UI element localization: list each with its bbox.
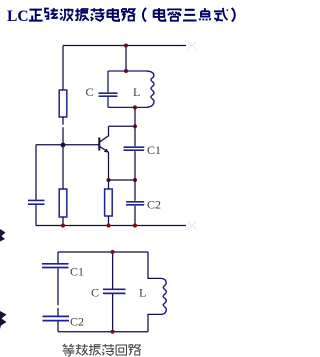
node: C2 top junction [133, 178, 137, 182]
caption char 等 [63, 344, 75, 356]
wire: emitter node to Re [108, 180, 110, 189]
svg-text:C: C [91, 286, 99, 300]
node: emitter junction [106, 178, 110, 182]
caption char 路 [129, 344, 141, 355]
wire: R2 to ground rail [62, 217, 64, 226]
wire: lower left branch upper [57, 252, 59, 263]
node: collector junction [133, 124, 137, 128]
svg-text:L: L [139, 286, 146, 300]
title char （ [143, 8, 146, 22]
wire: Vcc top rail [63, 45, 186, 47]
wire: lower bottom rail [58, 331, 148, 333]
svg-text:C1: C1 [147, 143, 161, 157]
title char 振 [75, 8, 89, 21]
node: middle top [111, 250, 115, 254]
title char 式 [214, 8, 228, 21]
node: rail tap [124, 44, 128, 48]
node: C2 ground junction [133, 223, 137, 227]
svg-text:C2: C2 [147, 198, 161, 212]
faint end mark at top rail [188, 42, 196, 49]
wire: tank bottom to collector node and down to ground [134, 107, 136, 225]
wire: emitter node to C2 node [109, 179, 136, 181]
title char 正 [29, 10, 43, 21]
wire: R1 to base node [62, 117, 64, 145]
title char 波 [60, 9, 73, 21]
faint end mark at bottom rail [188, 222, 196, 229]
wire: node to R2 [62, 145, 64, 189]
svg-text:L: L [133, 85, 140, 99]
node: tank bottom [133, 105, 137, 109]
title char 电 [154, 8, 166, 21]
transistor Q1 emitter arrow [104, 149, 109, 153]
tank left edge [107, 71, 109, 107]
caption char 回 [116, 345, 126, 355]
svg-text:C1: C1 [70, 265, 84, 279]
svg-text:LC: LC [7, 8, 29, 25]
capacitor C1 plates [124, 147, 145, 150]
inductor L (equiv) coil [162, 278, 167, 314]
wire: emitter down [108, 152, 110, 180]
wire: base horizontal [36, 144, 99, 146]
node: Re ground junction [106, 223, 110, 227]
title char ） [232, 8, 235, 22]
caption char 效 [76, 344, 88, 355]
node: middle bottom [111, 330, 115, 334]
transistor Q1 base bar [98, 138, 100, 151]
transistor Q1 emitter stroke [100, 147, 109, 153]
wire: middle branch upper [112, 252, 114, 289]
wire: lower top rail [58, 251, 148, 253]
tank top edge [108, 70, 147, 72]
wire: between C1 and C2 [57, 268, 59, 315]
node: tank top [124, 69, 128, 73]
node: base junction [61, 143, 66, 148]
left edge artifact mark upper [0, 229, 6, 242]
wire: bottom ground rail [36, 225, 186, 227]
tank bottom edge [108, 106, 147, 108]
capacitor C (tank) plates [99, 93, 118, 96]
caption char 荡 [102, 344, 114, 355]
capacitor C2 (equiv) plates [43, 316, 70, 320]
resistor R1 (base bias) [59, 90, 67, 117]
title text LC [7, 8, 29, 25]
inductor L (tank) coil [147, 71, 155, 107]
title char 三 [183, 10, 196, 21]
capacitor (base bypass) plates [28, 200, 45, 204]
transistor Q1 collector stroke [100, 126, 109, 142]
wire: left branch down to bypass cap [35, 145, 37, 200]
wire: middle branch lower [112, 294, 114, 332]
title char 路 [122, 8, 135, 20]
wire: left vertical from rail to R1 [62, 46, 64, 91]
resistor R2 (lower bias) [59, 189, 67, 217]
capacitor C (equiv) plates [103, 289, 126, 293]
wire: lower right branch with stubs [148, 252, 162, 332]
wire: Re to ground rail [108, 216, 110, 226]
svg-text:C: C [86, 85, 94, 99]
node: R2 ground junction [61, 223, 65, 227]
wire: collector to C1 node [109, 125, 136, 127]
svg-text:C2: C2 [70, 315, 84, 329]
caption char 振 [89, 344, 101, 355]
title char 弦 [45, 8, 58, 19]
capacitor C2 plates [126, 202, 144, 205]
wire: C2 to lower bottom rail [57, 321, 59, 331]
title char 电 [108, 8, 120, 21]
left edge artifact mark lower [0, 311, 7, 329]
title char 点 [199, 8, 210, 20]
wire: bypass cap to ground rail [35, 205, 37, 226]
title char 荡 [91, 8, 104, 21]
capacitor C1 (equiv) plates [42, 264, 69, 268]
resistor Re (emitter) [105, 189, 113, 216]
title char 容 [168, 9, 181, 20]
wire: rail to tank top [125, 46, 127, 72]
